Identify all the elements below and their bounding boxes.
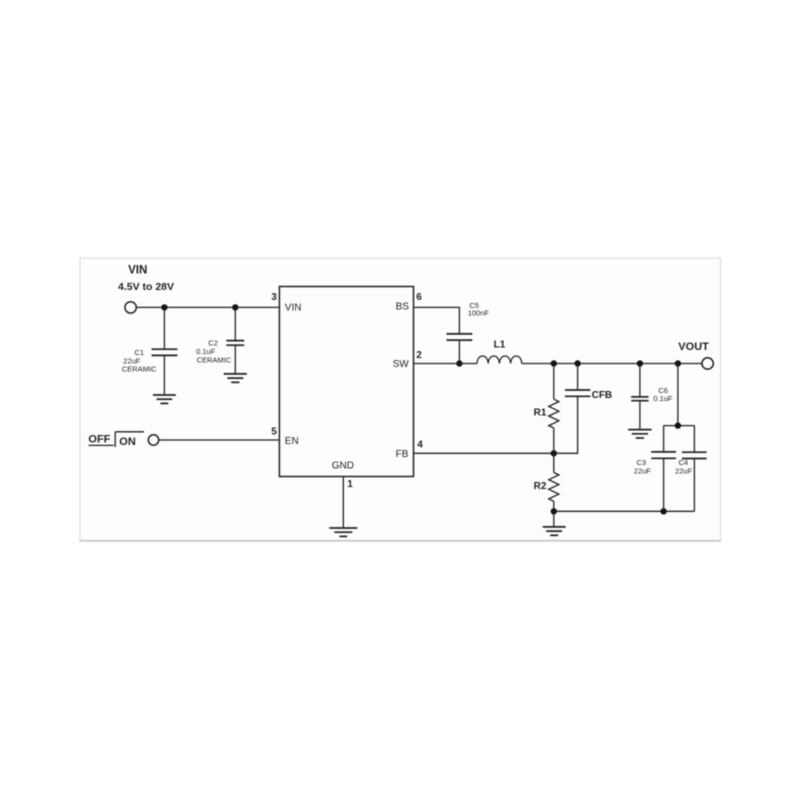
junction R2/ground node	[551, 508, 557, 514]
junction C3/bus	[660, 508, 666, 514]
ground C1	[153, 395, 176, 403]
wire C1 bottom lead	[163, 355, 165, 394]
svg-text:OFF: OFF	[88, 434, 110, 446]
wire C1 top lead	[163, 307, 165, 349]
capacitor C6	[631, 397, 648, 401]
capacitor C2	[226, 341, 244, 346]
svg-text:4.5V to 28V: 4.5V to 28V	[118, 281, 174, 293]
svg-text:5: 5	[271, 427, 277, 438]
svg-text:R2: R2	[534, 481, 547, 492]
junction C3C4/VOUT	[675, 360, 681, 366]
wire BS lead	[414, 307, 460, 334]
junction FB node	[551, 450, 557, 456]
inductor L1	[477, 356, 522, 364]
wire ground lead R2	[553, 511, 555, 526]
switch step top bar	[115, 431, 144, 433]
wire R2 bottom lead	[553, 501, 555, 511]
svg-text:4: 4	[417, 439, 423, 450]
wire R1 bottom lead	[553, 428, 555, 453]
wire bottom bus	[554, 510, 695, 512]
junction C2/VIN	[232, 304, 238, 310]
svg-text:6: 6	[416, 292, 422, 303]
svg-text:VIN: VIN	[128, 265, 147, 277]
junction CFB/SW	[574, 360, 580, 366]
wire C4 top lead	[693, 426, 695, 453]
wire EN	[159, 439, 280, 441]
switch step vertical	[114, 432, 116, 447]
wire C3C4 feed	[677, 364, 679, 426]
wire R2 top lead	[553, 453, 555, 472]
wire CFB top lead	[577, 364, 579, 391]
capacitor C3	[651, 452, 676, 458]
capacitor C5	[447, 334, 473, 340]
capacitor C1	[152, 349, 178, 355]
svg-text:VIN: VIN	[285, 302, 302, 313]
resistor R2	[549, 473, 559, 502]
svg-text:BS: BS	[396, 301, 410, 312]
svg-text:0.1uF: 0.1uF	[653, 394, 673, 403]
wire C2 bottom lead	[234, 345, 236, 373]
C2 value label	[196, 338, 232, 364]
svg-text:C2: C2	[208, 338, 218, 347]
svg-text:ON: ON	[119, 436, 136, 448]
svg-text:EN: EN	[285, 436, 299, 447]
junction C5/SW	[456, 360, 462, 366]
wire FB	[414, 452, 554, 454]
frame bottom shadow	[79, 540, 721, 542]
svg-text:CFB: CFB	[592, 390, 613, 401]
op-amp U1 IC body	[279, 287, 413, 477]
junction C1/VIN	[161, 304, 167, 310]
wire C3 bottom lead	[663, 458, 665, 511]
wire R1 top lead	[553, 364, 555, 400]
wire CFB bottom lead	[554, 396, 578, 453]
wire C3 top lead	[663, 426, 665, 452]
C4 value label	[675, 458, 693, 475]
wire C5 bottom lead	[458, 340, 460, 363]
output terminal	[702, 358, 713, 369]
svg-text:VOUT: VOUT	[678, 341, 709, 353]
wire C2 top lead	[234, 307, 236, 340]
wire C6 bottom lead	[639, 401, 641, 429]
svg-text:FB: FB	[396, 449, 409, 460]
junction C6/VOUT	[637, 360, 643, 366]
svg-text:CERAMIC: CERAMIC	[122, 365, 157, 374]
ground R2	[543, 527, 566, 535]
capacitor CFB	[565, 390, 591, 396]
C5 value label	[468, 301, 490, 317]
C6 value label	[653, 386, 673, 403]
svg-text:L1: L1	[494, 339, 506, 350]
svg-text:100nF: 100nF	[468, 308, 490, 317]
ground C2	[224, 374, 247, 382]
ground IC	[329, 528, 357, 536]
C1 value label	[122, 348, 157, 374]
svg-text:22uF: 22uF	[634, 467, 652, 476]
wire VIN rail	[137, 306, 280, 308]
wire SW to L1	[414, 363, 478, 365]
OFF underline	[88, 444, 113, 446]
svg-text:R1: R1	[534, 408, 547, 419]
junction C3C4 top	[675, 422, 681, 428]
wire GND pin lead	[342, 477, 344, 528]
C3 value label	[634, 458, 652, 475]
svg-text:1: 1	[347, 479, 353, 490]
outer frame	[80, 258, 721, 540]
svg-text:22uF: 22uF	[675, 467, 693, 476]
svg-text:3: 3	[271, 292, 277, 303]
svg-text:CERAMIC: CERAMIC	[197, 356, 232, 365]
svg-text:SW: SW	[393, 359, 410, 370]
wire C3C4 top bus	[664, 425, 695, 427]
input terminal	[125, 302, 136, 313]
wire C4 bottom lead	[693, 459, 695, 512]
svg-text:GND: GND	[332, 461, 354, 472]
EN terminal	[148, 435, 158, 445]
wire L1 to VOUT	[522, 363, 702, 365]
svg-text:2: 2	[416, 350, 422, 361]
wire C6 top lead	[639, 364, 641, 397]
junction R1/SW	[551, 360, 557, 366]
ground C6	[628, 430, 651, 438]
resistor R1	[549, 399, 559, 428]
capacitor C4	[682, 452, 707, 458]
